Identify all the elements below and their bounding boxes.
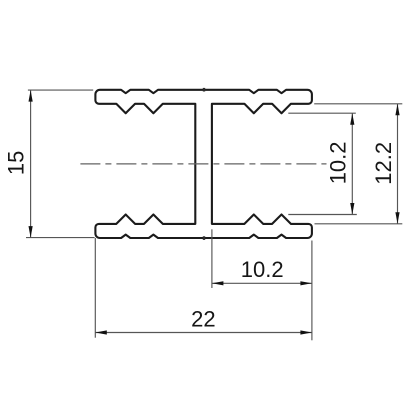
dim 10.2 right arrow up	[350, 113, 354, 125]
center line	[80, 163, 326, 165]
dim 10.2 bottom extension left (web)	[211, 229, 213, 288]
dim 10.2 bottom line	[212, 282, 312, 284]
svg-text:22: 22	[191, 306, 215, 331]
vertical center tick bottom	[203, 236, 205, 240]
dim 12.2 extension top	[314, 103, 402, 105]
svg-text:10.2: 10.2	[241, 257, 284, 282]
svg-text:15: 15	[3, 151, 28, 175]
dim 22 arrow right	[300, 330, 312, 334]
dim 15 extension top	[28, 89, 93, 91]
dim 22 extension left	[94, 238, 96, 338]
svg-text:10.2: 10.2	[326, 141, 351, 184]
dim 10.2/22 shared extension right	[311, 241, 313, 341]
dim 12.2 arrow up	[395, 104, 399, 116]
dim 10.2 right line	[351, 113, 353, 214]
dim 22 arrow left	[95, 330, 107, 334]
dim 15 extension bottom	[26, 237, 95, 239]
dim 12.2 line	[397, 104, 399, 224]
dim 10.2 bottom arrow left	[212, 281, 224, 285]
dim 15 line	[30, 90, 32, 238]
dim 22 line	[95, 332, 312, 334]
dim 12.2 arrow down	[395, 212, 399, 224]
profile outline	[95, 90, 312, 238]
vertical center tick top	[203, 88, 205, 92]
dim 12.2 extension bottom	[315, 223, 403, 225]
svg-text:12.2: 12.2	[371, 142, 396, 185]
dim 10.2 right extension bottom	[288, 214, 357, 216]
dim 15 arrow down	[29, 226, 33, 238]
dim 10.2 right arrow down	[350, 203, 354, 215]
dim 15 arrow up	[29, 90, 33, 102]
dim 10.2 bottom arrow right	[300, 281, 312, 285]
dim 10.2 right extension top	[288, 112, 356, 114]
